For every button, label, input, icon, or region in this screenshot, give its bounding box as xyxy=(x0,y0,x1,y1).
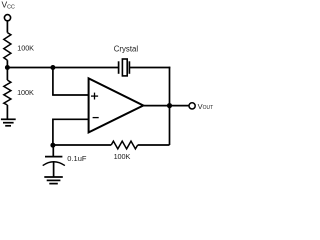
wire output xyxy=(143,105,189,107)
wire node B down xyxy=(52,68,54,96)
svg-text:0.1uF: 0.1uF xyxy=(67,154,87,163)
terminal VCC xyxy=(4,15,10,21)
wire node C to R3 xyxy=(53,144,111,146)
resistor R2 xyxy=(4,80,11,105)
svg-text:100K: 100K xyxy=(114,152,131,161)
wire crystal to feedback corner xyxy=(129,67,170,69)
wire to + input xyxy=(52,94,89,96)
wire down to node C xyxy=(52,119,54,146)
wire R3 to feedback xyxy=(138,144,170,146)
svg-text:100K: 100K xyxy=(17,88,34,97)
terminal VOUT xyxy=(189,103,195,109)
minus symbol xyxy=(93,117,99,119)
wire node A to node B xyxy=(7,67,53,69)
wire from - input xyxy=(53,118,89,120)
wire node A down xyxy=(6,68,8,81)
resistor R1 xyxy=(4,33,11,61)
wire feedback vertical xyxy=(169,67,171,145)
node B junction xyxy=(50,65,55,70)
node A junction xyxy=(5,65,10,70)
resistor R3 xyxy=(111,141,138,149)
plus symbol xyxy=(91,93,98,100)
wire R2 to ground xyxy=(6,105,8,119)
wire node B to crystal xyxy=(53,67,119,69)
capacitor C1 xyxy=(43,157,65,166)
op-amp U1 xyxy=(89,78,144,132)
ground G1 xyxy=(1,119,16,126)
node D junction (output) xyxy=(167,103,172,108)
node C junction xyxy=(50,143,55,148)
crystal Y1 xyxy=(119,59,130,76)
wire node C to capacitor xyxy=(52,145,54,156)
svg-text:Crystal: Crystal xyxy=(114,45,139,54)
ground G2 xyxy=(44,177,63,184)
wire capacitor to ground xyxy=(53,162,55,177)
svg-text:100K: 100K xyxy=(17,43,34,52)
wire xyxy=(6,60,8,67)
wire xyxy=(6,21,8,33)
